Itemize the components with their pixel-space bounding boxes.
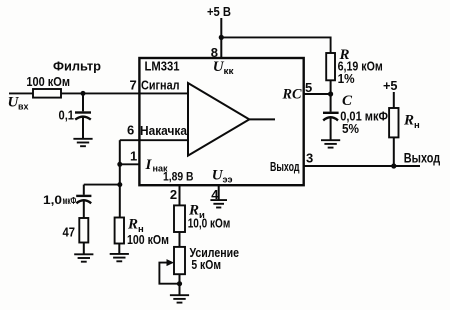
svg-text:Выход: Выход [270, 160, 300, 174]
label +5 V top [207, 4, 231, 19]
label Ukk pin name [213, 59, 234, 77]
label Rn 100k [127, 217, 144, 236]
svg-text:I: I [145, 157, 153, 173]
svg-text:100 кОм: 100 кОм [26, 74, 70, 89]
pin number 4 [211, 187, 219, 202]
op-amp U1 comparator triangle [188, 83, 249, 156]
wire R to RC node [330, 80, 332, 94]
wire resistor 47 to ground [83, 243, 85, 255]
wire pin 2 stub [179, 185, 181, 205]
label 100 kOhm filter [26, 74, 70, 89]
wire pin 4 stub [218, 185, 220, 200]
svg-text:2: 2 [170, 187, 177, 202]
svg-text:RC: RC [282, 87, 303, 103]
svg-text:100 кОм: 100 кОм [127, 232, 169, 247]
ground under Rn 100k [110, 254, 129, 261]
resistor 47 [79, 218, 88, 243]
label Rn load [403, 113, 420, 132]
svg-text:Сигнал: Сигнал [141, 77, 180, 92]
ground under pin 4 [210, 200, 227, 207]
svg-text:кк: кк [224, 66, 234, 77]
label Inak pin name [145, 157, 168, 175]
pin number 5 [305, 80, 312, 95]
pin number 8 [211, 45, 218, 60]
label Uvx input [8, 94, 30, 112]
svg-text:вх: вх [18, 102, 29, 113]
label 10,0 kOhm [188, 216, 231, 231]
wire Ri to potentiometer [179, 232, 181, 247]
wire +5V supply lead [220, 18, 222, 37]
wiper arrowhead [167, 259, 175, 266]
node pin1/pin6 junction [117, 162, 122, 167]
IC LM331 body box [139, 58, 303, 185]
svg-text:Фильтр: Фильтр [53, 59, 101, 74]
svg-text:Выход: Выход [404, 150, 440, 166]
node junction filter/cap 0,1 [81, 91, 86, 96]
wire pin 6 down to pin 1 junction [119, 140, 121, 164]
node junction cap 1,0 branch [117, 182, 122, 187]
ground under cap 0,1 [73, 139, 92, 146]
pin number 6 [127, 122, 134, 137]
label 5% [342, 121, 359, 136]
label RC pin name [282, 87, 303, 103]
pin number 3 [306, 151, 313, 166]
svg-text:5%: 5% [342, 121, 359, 136]
label Signal pin name [141, 77, 180, 92]
node RC junction [328, 91, 333, 96]
svg-text:1,0: 1,0 [43, 193, 62, 207]
svg-text:R: R [127, 217, 138, 233]
wire Rn to ground [118, 244, 120, 254]
svg-text:LM331: LM331 [145, 59, 180, 74]
wire pin 3 output [304, 165, 420, 167]
wire junction down to Rn branch [119, 164, 121, 217]
svg-text:н: н [414, 120, 420, 131]
pin number 7 [130, 77, 137, 92]
svg-text:C: C [342, 93, 353, 109]
svg-text:10,0 кОм: 10,0 кОм [188, 216, 231, 231]
label 5 kOhm [191, 257, 221, 272]
svg-text:1%: 1% [338, 71, 355, 86]
label 6,19 kOhm [338, 59, 383, 74]
label C [342, 93, 353, 109]
node supply junction [219, 35, 224, 40]
svg-text:0,1: 0,1 [59, 108, 75, 123]
svg-text:+5: +5 [383, 78, 398, 93]
svg-text:+5 В: +5 В [207, 4, 231, 19]
svg-text:1: 1 [130, 149, 137, 164]
wire cap 0,1 to ground [82, 116, 84, 138]
label R [339, 47, 350, 63]
capacitor C 0,1 [75, 113, 91, 120]
capacitor 1,0 mkF [76, 196, 91, 203]
resistor Ri 10,0 kOhm [174, 205, 185, 232]
label 1,89 V [163, 169, 194, 183]
label Gain [190, 245, 240, 260]
wire cap C to ground [330, 117, 332, 140]
svg-text:5: 5 [305, 80, 312, 95]
wire cap 1,0 to resistor 47 [83, 200, 85, 218]
label Vyhod pin name inside [270, 160, 300, 174]
ground under cap C [321, 140, 340, 147]
label Ri [188, 203, 205, 222]
wire pot bottom to ground [179, 274, 181, 295]
wire down to cap 1,0 [83, 185, 85, 195]
wire op-amp output stub [249, 118, 275, 120]
label Filter [53, 59, 101, 74]
svg-text:3: 3 [306, 151, 313, 166]
wire Rn load to output [393, 137, 395, 166]
wire pin 5 RC [304, 93, 331, 95]
label Vyhod output right [404, 150, 440, 166]
resistor R 6,19 kOhm [326, 53, 335, 80]
node output junction [391, 163, 396, 168]
resistor Rn load [389, 108, 398, 137]
label Uee pin name [212, 168, 233, 186]
svg-text:мкФ: мкФ [63, 195, 77, 207]
label 0,1 [59, 108, 75, 123]
resistor Rn 100 kOhm [115, 218, 124, 244]
wire input from Uvx to R filter [9, 92, 33, 94]
label Pump pin name [140, 123, 188, 138]
label 1% [338, 71, 355, 86]
wire junction to cap 1,0 [84, 184, 120, 186]
label 0,01 mkF [340, 108, 388, 123]
svg-text:47: 47 [63, 225, 76, 240]
wiper arm wire [159, 263, 179, 284]
svg-text:7: 7 [130, 77, 137, 92]
pin number 2 [170, 187, 177, 202]
ground under resistor 47 [74, 254, 93, 261]
wire filter resistor to IC pin 7 [61, 92, 188, 94]
label +5 load [383, 78, 398, 93]
capacitor C 0,01 mkF [323, 113, 339, 121]
wire supply rail to resistor R [221, 37, 330, 53]
svg-text:8: 8 [211, 45, 218, 60]
svg-text:ээ: ээ [223, 175, 233, 186]
node pot/wiper junction [177, 281, 182, 286]
label 47 [63, 225, 76, 240]
wire +5 load lead [393, 92, 395, 108]
svg-text:1,89 В: 1,89 В [163, 169, 194, 183]
wire pin 6 pump to op-amp input [120, 139, 188, 141]
resistor 100 kOhm filter [33, 89, 61, 98]
wire pin 8 stub [220, 37, 222, 58]
label 1,0 mkF [43, 193, 76, 207]
ground under potentiometer [170, 295, 189, 302]
wire pin 1 Inak [120, 163, 140, 165]
wire RC node to cap C [330, 94, 332, 112]
potentiometer 5 kOhm gain [174, 247, 185, 274]
label 100 kOhm under Rn [127, 232, 169, 247]
svg-text:4: 4 [211, 187, 219, 202]
wire junction down to cap 0,1 [82, 93, 84, 111]
label LM331 [145, 59, 180, 74]
svg-text:R: R [403, 113, 414, 129]
svg-text:6: 6 [127, 122, 134, 137]
svg-text:5 кОм: 5 кОм [191, 257, 221, 272]
svg-text:Накачка: Накачка [140, 123, 188, 138]
pin number 1 [130, 149, 137, 164]
